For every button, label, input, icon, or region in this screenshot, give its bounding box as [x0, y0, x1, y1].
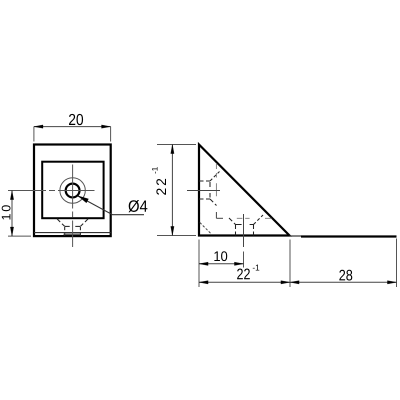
arrow bottom 22v [171, 226, 174, 235]
funnel side left [64, 227, 66, 231]
left hole hidden: end [209, 182, 211, 198]
triangle outline [199, 145, 290, 236]
arrow bottom of 10 [10, 227, 13, 236]
outer circle (counterbore) [60, 178, 85, 203]
slot line horizontal remaining dashes [237, 217, 272, 219]
bottom dims: ext line x=199 [198, 240, 200, 288]
slot line vertical lower dark dash [215, 212, 217, 218]
funnel bottom left [65, 225, 70, 227]
dim 22 bottom line [199, 281, 290, 283]
arrow top of 10 [10, 191, 13, 200]
left hole hidden: bottom [199, 198, 210, 200]
outer square [34, 145, 111, 237]
bottom strip dark segment [64, 233, 81, 235]
bottom hole hidden: end [236, 224, 254, 226]
slot line vertical (gray dashed) [215, 163, 217, 196]
text Ø4 [129, 200, 148, 212]
dim 22 vertical: ext top [157, 144, 196, 146]
left hole cone up [210, 172, 220, 182]
chamfer hidden dotted [200, 223, 211, 234]
arrow left 22b [199, 281, 208, 284]
text 22^-1 rotated [156, 179, 166, 195]
leader arrowhead [78, 196, 89, 203]
slot wall marks through strip [64, 233, 66, 236]
centerline vertical [72, 165, 74, 248]
dim 22 vertical line [171, 145, 173, 236]
arrow right 10b [234, 262, 243, 265]
baseline thick 28 segment [301, 235, 397, 237]
funnel bottom right [75, 225, 80, 227]
dim 22 vertical: ext bottom [157, 235, 196, 237]
dimension 20 line [34, 126, 111, 128]
inner square [42, 162, 103, 219]
dimension 10 line [11, 191, 13, 237]
left hole hidden: top [199, 180, 210, 182]
arrow right 28 [387, 281, 396, 284]
arrow left of 20 [34, 125, 43, 128]
dimension 20 ext lines [33, 127, 35, 142]
arrow left 10b [199, 262, 208, 265]
ext line x=396.5 [396, 239, 398, 288]
hole circle Ø4 [66, 184, 80, 198]
arrow left 28 [290, 281, 299, 284]
dim 28 line [290, 281, 397, 283]
bottom hole centerline [243, 214, 245, 247]
text 20 [69, 114, 83, 125]
bottom hole hidden: left [235, 225, 237, 236]
funnel hidden slot: left diagonal [57, 219, 65, 227]
left hole centerline [187, 190, 220, 192]
centerline horizontal [8, 190, 95, 192]
bottom hole cone left [229, 218, 236, 225]
dimension 10 (left) ext line bottom [8, 235, 31, 237]
baseline thin segment [290, 235, 302, 237]
bottom hole centerline lower part [243, 252, 245, 268]
funnel right diagonal [80, 219, 88, 227]
bottom strip inner line [34, 232, 111, 234]
funnel side right [79, 227, 81, 231]
arrow right of 20 [102, 125, 111, 128]
left hole cone down [210, 199, 217, 206]
slot line horizontal (gray dashed) [216, 217, 223, 219]
bottom hole hidden: right [253, 225, 255, 236]
ext line x=290 [289, 240, 291, 288]
leader line Ø4 [78, 196, 144, 215]
text 10 rotated [2, 205, 11, 219]
text 10 bottom [214, 251, 227, 261]
bottom hole cone right [254, 215, 264, 225]
arrow right 22b [281, 281, 290, 284]
arrow top 22v [171, 145, 174, 154]
superscript -1 of vertical 22 [152, 167, 158, 173]
dim 10 bottom line [199, 263, 244, 265]
text 28 [339, 270, 352, 281]
text 22^-1 bottom [237, 268, 250, 279]
